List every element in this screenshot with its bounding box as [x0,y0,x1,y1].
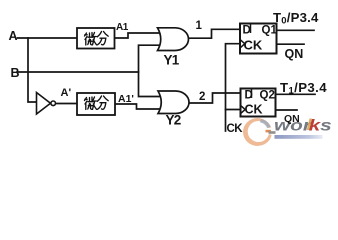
svg-text:Q2: Q2 [260,90,275,102]
svg-text:CK: CK [244,38,263,53]
svg-text:A': A' [61,87,72,99]
svg-text:CK: CK [227,123,244,135]
svg-text:Y1: Y1 [164,52,180,67]
svg-text:s: s [320,116,332,134]
svg-text:T0/P3.4: T0/P3.4 [273,10,319,27]
svg-text:2: 2 [199,91,205,103]
svg-text:A1: A1 [116,22,129,33]
svg-text:QN: QN [285,47,304,61]
svg-text:T1/P3.4: T1/P3.4 [280,80,327,97]
svg-text:A1': A1' [118,93,134,105]
svg-text:1: 1 [196,20,203,32]
svg-text:Y2: Y2 [166,112,181,127]
svg-text:CK: CK [245,103,263,117]
svg-text:D: D [243,25,251,37]
svg-text:Q1: Q1 [262,25,278,37]
svg-text:B: B [11,66,20,80]
svg-text:D: D [245,90,253,102]
svg-text:A: A [9,29,18,43]
svg-text:QN: QN [284,113,300,125]
